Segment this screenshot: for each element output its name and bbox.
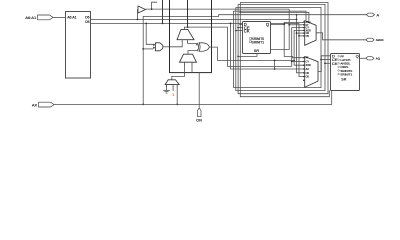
node O6 tap xyxy=(296,32,298,34)
XOR gate XORCY xyxy=(198,43,210,51)
node F7 stub xyxy=(151,8,153,10)
svg-text:AX: AX xyxy=(306,68,310,71)
node CY tap xyxy=(291,61,293,63)
node O6-buffer junction xyxy=(137,18,139,20)
wire A5FF SR xyxy=(238,54,257,57)
svg-text:AX: AX xyxy=(32,102,38,107)
wire F7 stub up xyxy=(152,2,157,9)
node A5FF SR tap xyxy=(237,56,239,58)
node CY junction xyxy=(187,26,189,28)
node A-O6 junction xyxy=(296,14,298,16)
wire MUXCY S input stub xyxy=(188,40,199,45)
wire XOR tap mux2 xyxy=(294,60,305,65)
LUT block xyxy=(66,12,91,79)
wire lower mux left stub from CYINIT xyxy=(172,62,185,80)
svg-text:O5: O5 xyxy=(85,20,90,24)
node O5 drop xyxy=(145,23,147,25)
wire AX trunk xyxy=(54,90,332,104)
node A5FF CK xyxy=(235,30,237,32)
wire F7 down to mux pins xyxy=(271,9,290,49)
wire O6 tap to mux1 xyxy=(297,32,305,34)
carry box (CARRY4, cut at top) xyxy=(170,0,212,73)
port AMUX xyxy=(366,38,384,42)
svg-text:CK: CK xyxy=(244,29,250,34)
node CE stub xyxy=(320,59,322,61)
wire XOR stub down xyxy=(274,60,276,69)
wire loop v2-H3 xyxy=(236,4,325,90)
svg-text:AMUX: AMUX xyxy=(376,38,384,42)
svg-text:CIN: CIN xyxy=(196,119,202,123)
wire O5 trunk xyxy=(91,22,300,24)
MUXCY trapezoid xyxy=(177,29,194,39)
CYINIT constant 1 stub xyxy=(172,85,174,91)
wire lower mux right stub from CIN xyxy=(191,62,193,72)
wire O5 tap to mux1 xyxy=(299,35,305,37)
svg-text:Q: Q xyxy=(356,54,359,59)
wire A5FF CK input xyxy=(236,30,243,32)
wire A6:A1 to LUT xyxy=(53,16,66,18)
svg-text:AQ: AQ xyxy=(376,57,381,61)
svg-text:SRINIT1: SRINIT1 xyxy=(340,72,352,76)
node A5FF CE xyxy=(237,27,239,29)
wire O6 trunk xyxy=(91,18,297,20)
svg-text:A6:A1: A6:A1 xyxy=(67,16,76,20)
node O6 trunk junction xyxy=(296,18,298,20)
flip-flop A5FF xyxy=(243,22,271,54)
port AQ xyxy=(366,57,381,61)
node AX tap xyxy=(142,48,144,50)
wire AX tap to DI gate xyxy=(143,48,153,50)
wire A5FF D input xyxy=(240,23,242,25)
wire AFF Q to AQ port xyxy=(360,57,366,59)
wire mux1 out to AMUX xyxy=(316,33,366,40)
wire A5FF Q to mux1 xyxy=(271,22,305,24)
node AX riser bottom xyxy=(142,104,144,106)
wire F7 out xyxy=(146,8,290,10)
wire FF2 CE stub xyxy=(321,59,331,61)
node AX-CYINIT junction xyxy=(176,104,178,106)
svg-text:CY: CY xyxy=(306,61,310,64)
wire COUT vertical xyxy=(187,0,189,27)
wire loop v4-H1 xyxy=(240,2,329,96)
node AX feed tap xyxy=(230,23,232,25)
svg-text:SR: SR xyxy=(254,49,260,53)
ground xyxy=(163,90,170,93)
wire F7 tap mux1 xyxy=(289,24,305,26)
wire mux2 out to AFF D xyxy=(318,56,331,72)
node XOR junction xyxy=(293,60,295,62)
wire mux2 AX feed from O5 tap xyxy=(231,23,305,69)
svg-text:XOR: XOR xyxy=(306,64,311,67)
wire CY net to muxes xyxy=(188,27,305,66)
node H5 on v4 xyxy=(239,11,241,13)
node O5 up xyxy=(162,23,164,25)
wire DI gate out to carry box xyxy=(163,46,170,48)
wire CIN riser xyxy=(198,73,200,108)
lower mux in carry box xyxy=(180,54,197,62)
wire H5 xyxy=(240,12,309,21)
node XOR stub bottom xyxy=(274,68,276,70)
wire lower mux out to XOR input xyxy=(188,49,198,54)
wire loop v3-H2 xyxy=(238,2,328,93)
wire O5 up to top edge xyxy=(162,0,164,23)
wire MUXCY DI input xyxy=(170,40,182,47)
wire CY tap mux2 xyxy=(292,61,305,63)
node F7 tap xyxy=(288,24,290,26)
svg-text:O6: O6 xyxy=(85,15,90,19)
port A xyxy=(366,12,379,17)
wire O6 riser down to muxes xyxy=(297,15,305,73)
port CIN xyxy=(196,108,202,123)
wire O6 riser to buffer xyxy=(137,10,140,20)
svg-text:CK: CK xyxy=(332,61,338,66)
node XOR stub top xyxy=(274,60,276,62)
mux2 AFFMUX xyxy=(303,57,318,88)
wire CYINIT gnd stub xyxy=(166,85,168,91)
wire XOR out xyxy=(209,47,294,60)
wire A5Q drop to mux2 xyxy=(284,24,305,57)
wire FF2 CK stub xyxy=(325,62,331,64)
wire MUXCY out to COUT xyxy=(184,27,187,29)
flip-flop AFF xyxy=(331,54,360,91)
wire A5FF CE input xyxy=(238,27,242,29)
wire v1 down to B1 xyxy=(234,7,322,87)
svg-text:SRINIT1: SRINIT1 xyxy=(252,41,265,45)
node CK stub xyxy=(324,62,326,64)
CYINIT mux trapezoid xyxy=(165,80,179,85)
svg-text:A: A xyxy=(377,12,380,17)
svg-text:A6:A1: A6:A1 xyxy=(25,15,37,20)
node A5FF D xyxy=(239,23,241,25)
wire XOR riser to mux1 xyxy=(294,30,305,60)
wire H4 xyxy=(234,11,307,21)
wire O5 drop to DI gate xyxy=(146,23,153,44)
port A6:A1 xyxy=(25,15,53,20)
node O5 tap xyxy=(298,35,300,37)
DI gate (AND-shape) xyxy=(153,43,163,51)
wire O5 riser down to muxes xyxy=(299,23,305,76)
node A5Q drop xyxy=(283,23,285,25)
port AX xyxy=(32,102,54,107)
buffer F7 xyxy=(138,6,146,13)
svg-text:SR: SR xyxy=(341,77,346,81)
wire AX riser and jog to right xyxy=(143,15,366,105)
wire CYINIT AX stub xyxy=(176,85,178,105)
mux1 AOUTMUX xyxy=(303,21,316,46)
